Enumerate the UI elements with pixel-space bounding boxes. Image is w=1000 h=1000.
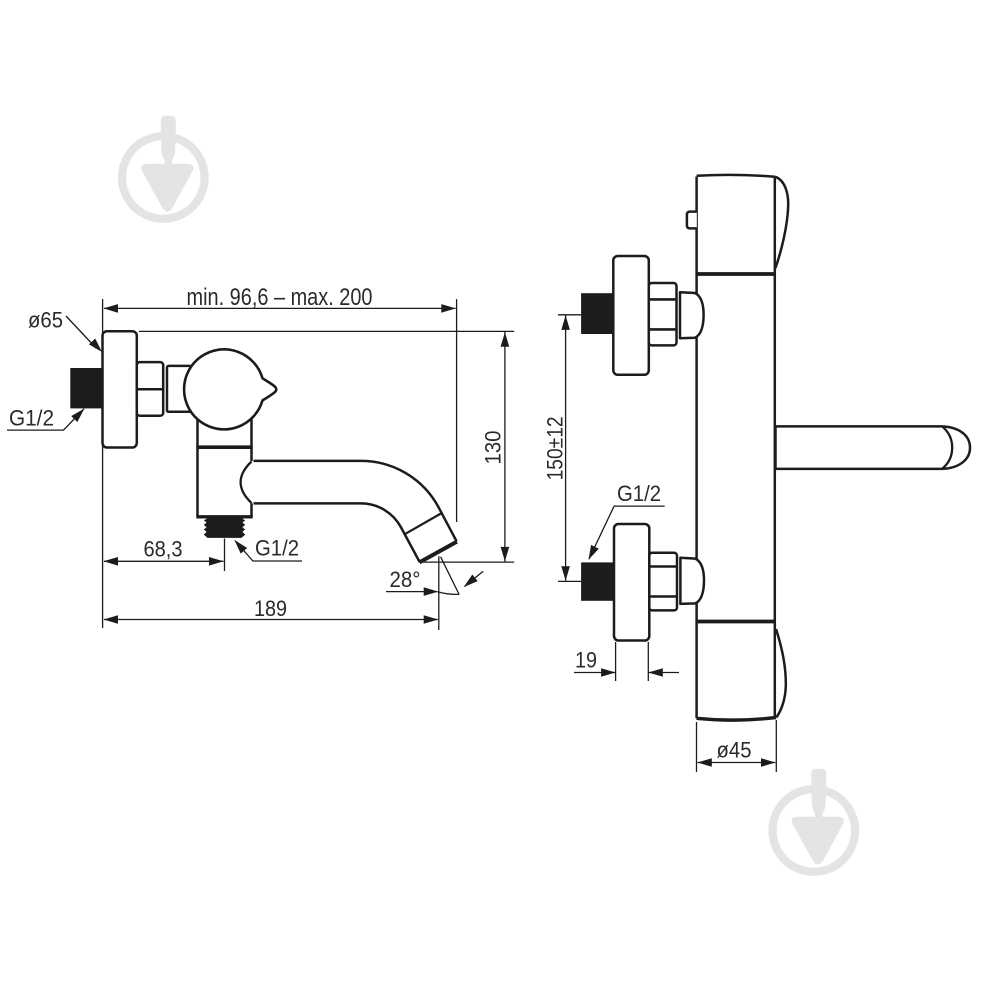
o45 dimension line	[698, 762, 776, 764]
150 bottom arrow	[561, 566, 570, 581]
G1/2 bottom underline + leader	[235, 541, 302, 561]
small button top left of body	[687, 212, 697, 229]
28deg arc arrow	[461, 575, 478, 591]
189 left arrow	[104, 615, 119, 624]
bottom joint line (thick)	[697, 620, 775, 624]
svg-text:130: 130	[480, 431, 505, 465]
189 dimension line	[104, 619, 438, 621]
G1/2 right leader arrow	[585, 545, 599, 562]
wall flange o65 left view	[103, 331, 137, 447]
G1/2 left leader arrow	[71, 406, 87, 422]
hex nut bottom right view	[649, 553, 677, 611]
hex nut top right view	[649, 283, 677, 345]
svg-text:19: 19	[575, 648, 597, 673]
extension line right of min/max	[456, 299, 458, 522]
189 extension line at spout tip	[438, 556, 440, 630]
extension line left (wall)	[102, 299, 104, 628]
28deg horizontal leader	[386, 591, 437, 593]
130 bottom arrow	[501, 547, 510, 562]
130 top extension line	[139, 330, 514, 332]
wall flange bottom right view	[614, 524, 649, 641]
68,3 dimension line	[104, 560, 224, 562]
body top edge	[697, 175, 775, 177]
wall flange top right view	[613, 256, 649, 375]
top-right cap crescent	[775, 177, 788, 268]
svg-text:G1/2: G1/2	[9, 406, 54, 431]
svg-text:G1/2: G1/2	[255, 535, 299, 560]
130 bottom extension line	[420, 561, 515, 563]
28deg axis line	[441, 557, 460, 595]
body bottom edge (thick)	[196, 515, 252, 518]
pipe end inner arc	[942, 426, 952, 469]
svg-text:150±12: 150±12	[543, 416, 568, 480]
shower outlet pipe	[776, 426, 971, 469]
o45 left arrow	[697, 758, 712, 767]
130 top arrow	[501, 332, 510, 347]
o65 leader	[66, 316, 97, 349]
189 right arrow	[424, 615, 439, 624]
body bottom edge (thick arc)	[697, 718, 777, 721]
G1/2 inlet top (black) right view	[581, 293, 614, 334]
150+-12 dimension line	[565, 315, 567, 580]
19 left arrow	[601, 668, 616, 677]
top connector band + dome	[680, 292, 704, 338]
body joint line (thick)	[196, 445, 252, 449]
150 top arrow	[561, 315, 570, 330]
svg-text:189: 189	[254, 596, 287, 621]
watermark bottom-right	[768, 769, 859, 876]
68,3 right arrow	[209, 557, 224, 566]
min/max dimension line	[104, 307, 456, 309]
spout end face (thick)	[419, 542, 457, 563]
top joint line (thick)	[697, 272, 775, 276]
bottom connector band + dome	[680, 558, 704, 604]
knob circle with spout tip nub	[184, 349, 276, 429]
19 right arrow	[648, 668, 663, 677]
faucet body left view	[196, 416, 254, 516]
svg-text:68,3: 68,3	[144, 537, 183, 562]
28deg arc	[438, 592, 459, 595]
ring piece left view	[167, 366, 191, 412]
svg-text:min. 96,6 – max. 200: min. 96,6 – max. 200	[187, 284, 373, 311]
o45 extension lines	[696, 722, 698, 772]
130 dimension line	[504, 332, 506, 562]
min/max left arrow	[104, 304, 119, 313]
19 extension lines	[615, 642, 617, 681]
68,3 extension line	[224, 539, 226, 572]
G1/2 inlet bottom (black) right view	[581, 562, 614, 600]
svg-text:28°: 28°	[390, 567, 421, 592]
aerator ring line on spout	[404, 514, 441, 535]
G1/2 right underline + leader	[589, 506, 665, 559]
hex nut left view	[137, 362, 163, 416]
svg-text:G1/2: G1/2	[617, 481, 661, 506]
main column body right view	[697, 177, 775, 719]
28deg horizontal arrow	[424, 587, 439, 596]
outlet thread (black) left view	[204, 517, 245, 538]
svg-text:ø45: ø45	[717, 738, 752, 763]
svg-text:ø65: ø65	[28, 308, 63, 333]
bottom-right cap crescent	[776, 629, 786, 718]
body outline redrawn over fill	[198, 413, 252, 517]
neck transition arc of spout	[241, 462, 252, 504]
150+-12 top extension	[558, 314, 581, 316]
o45 right arrow	[761, 758, 776, 767]
G1/2 left underline + leader	[7, 409, 84, 430]
68,3 left arrow	[104, 557, 119, 566]
min/max right arrow	[441, 304, 456, 313]
150+-12 bottom extension	[558, 580, 581, 582]
G1/2 bottom leader arrow	[231, 537, 247, 554]
19 dimension line with tails	[574, 672, 616, 674]
spout tube	[252, 461, 457, 562]
28deg second arrow tail	[465, 571, 484, 586]
G1/2 wall connector (black) left view	[70, 368, 104, 408]
watermark top-left	[118, 116, 209, 223]
o65 leader arrow	[89, 338, 105, 354]
